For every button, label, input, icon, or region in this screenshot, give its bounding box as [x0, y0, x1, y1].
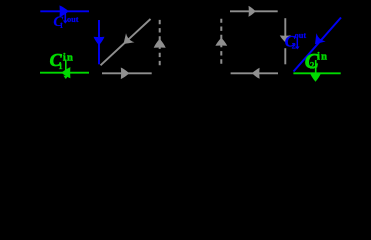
svg-text:2: 2 — [310, 60, 315, 70]
svg-text:out: out — [67, 15, 79, 24]
svg-text:in: in — [317, 52, 328, 63]
svg-text:out: out — [295, 31, 307, 40]
svg-text:1: 1 — [59, 21, 63, 30]
svg-text:2: 2 — [292, 41, 296, 51]
svg-text:in: in — [63, 53, 74, 64]
